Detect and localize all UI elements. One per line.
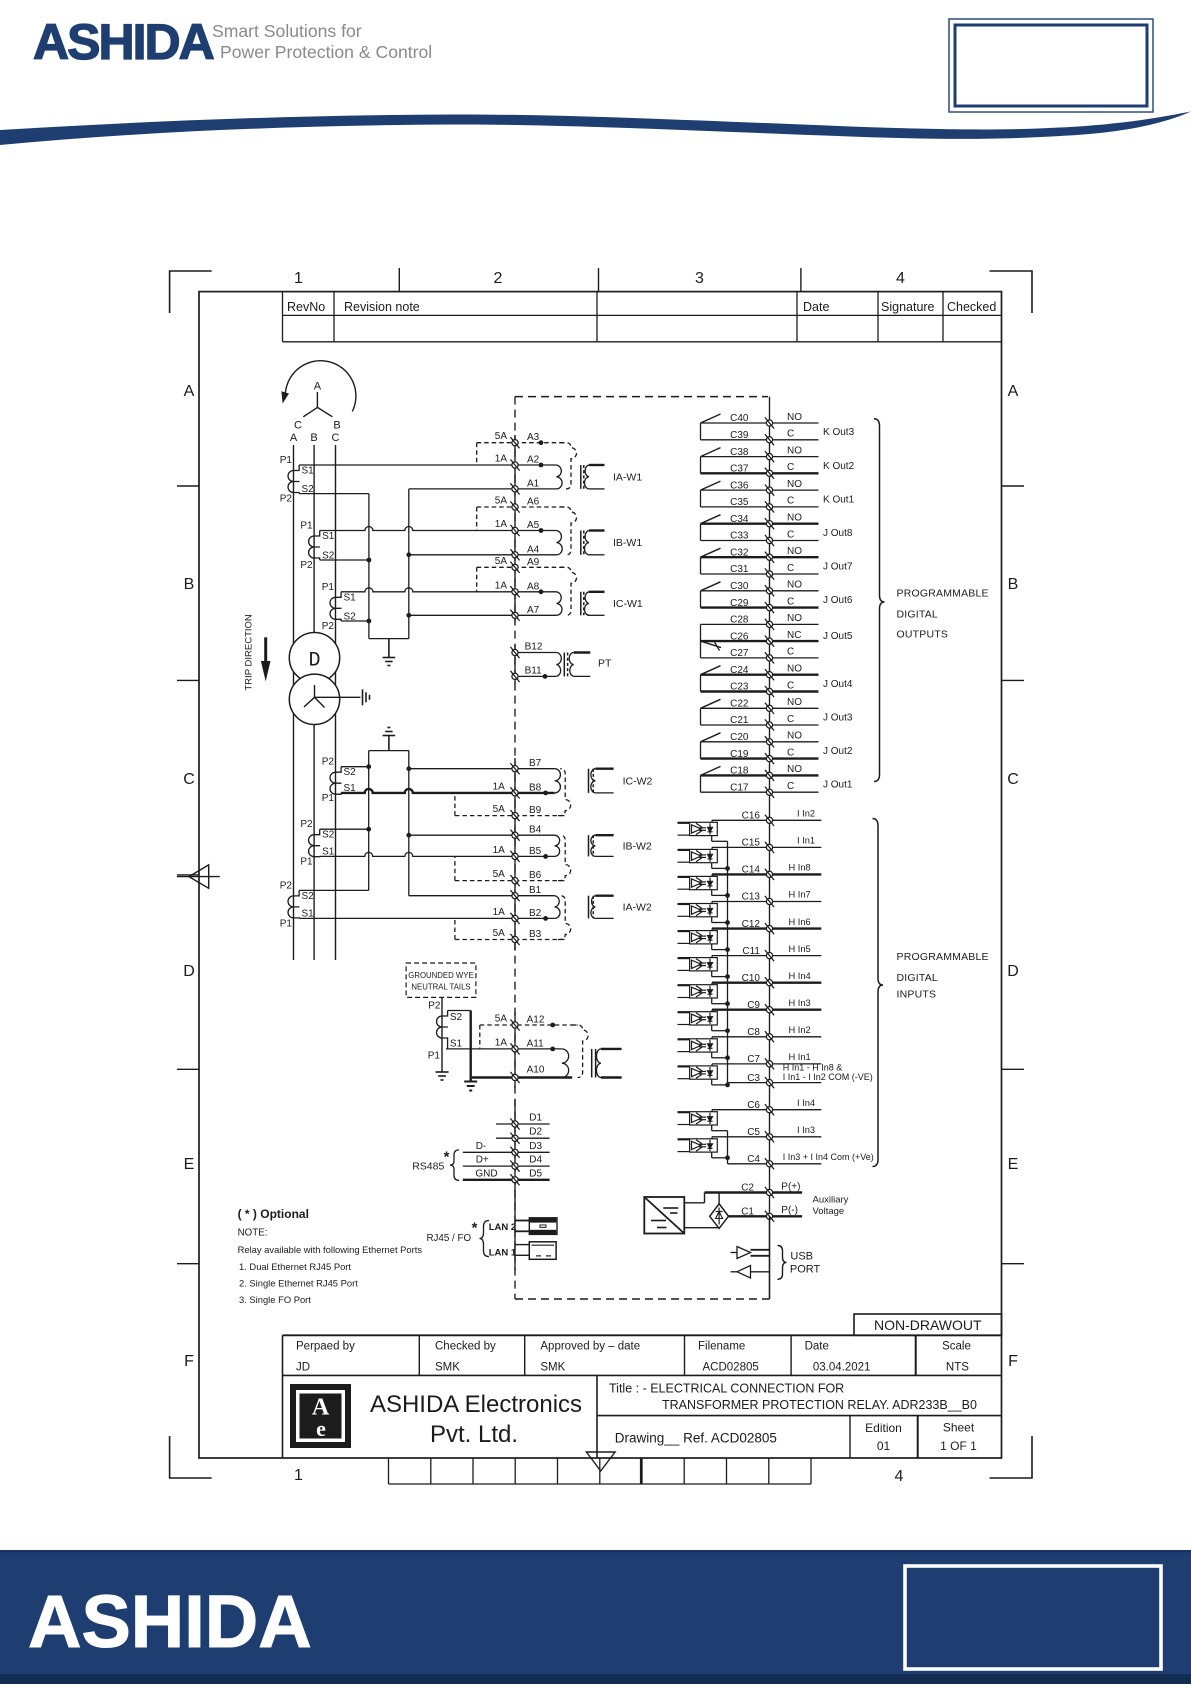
svg-text:J Out4: J Out4 [823,679,853,690]
notes block [238,1207,423,1305]
wire: phase B line [313,445,315,960]
svg-text:Checked by: Checked by [435,1341,496,1353]
winding IA-W2 with 5A wrap and core [543,896,652,940]
svg-text:D3: D3 [529,1141,542,1152]
svg-text:J Out7: J Out7 [823,561,853,572]
svg-text:H In3: H In3 [789,998,811,1008]
CT IA-W1 primary on phase A (P1,S1,S2,P2) [280,455,314,505]
svg-text:C: C [787,747,794,758]
svg-text:B7: B7 [529,758,542,769]
winding IC-W2 with 5A wrap and core [543,769,652,816]
svg-text:B12: B12 [525,642,543,653]
CT IB-W2 primary on phase B (P2,S2,S1,P1) [300,819,334,867]
svg-text:I In4: I In4 [797,1098,815,1108]
relay contact J Out1 (NO pair C18/C17) [701,766,853,792]
svg-text:C: C [294,420,302,432]
transformer delta winding (D) [289,633,339,683]
svg-text:ACD02805: ACD02805 [703,1362,759,1374]
optocoupler for C11 [678,958,718,971]
terminal C14 (input H In8) [712,863,821,880]
svg-text:( * ) Optional: ( * ) Optional [238,1207,309,1221]
wire: I In3/I In4 common bus to C4 [727,1131,729,1164]
svg-text:4: 4 [895,1468,904,1485]
svg-text:NO: NO [787,445,802,456]
svg-text:JD: JD [296,1362,310,1374]
wire: phase C line [335,445,337,960]
terminal C13 (input H In7) [712,890,821,907]
svg-text:5A: 5A [495,431,508,442]
relay case boundary (dashed) left [514,397,516,1299]
USB transmit buffer [731,1247,770,1259]
svg-text:P1: P1 [322,582,335,593]
svg-text:C21: C21 [730,715,749,726]
terminal C10 (input H In4) [712,971,821,988]
svg-text:NO: NO [787,697,802,708]
svg-text:C5: C5 [747,1127,760,1138]
terminal C23 (C) [701,680,819,697]
wire: C13 to opto and common bus [712,902,728,923]
CT neutral primary (P2,S2,S1,P1) [428,1001,463,1062]
svg-text:SMK: SMK [540,1362,565,1374]
header tagline [212,21,432,62]
svg-text:C4: C4 [747,1154,760,1165]
svg-text:e: e [316,1416,326,1441]
svg-text:*: * [444,1149,450,1166]
terminal C2 (P+) [705,1181,803,1198]
svg-text:C: C [1007,771,1019,788]
svg-text:NC: NC [787,630,801,641]
svg-text:C11: C11 [742,946,760,957]
winding IB-W2 with 5A wrap and core [543,835,652,880]
svg-text:Relay available with following: Relay available with following Ethernet … [238,1244,423,1255]
svg-text:Power Protection & Control: Power Protection & Control [220,42,432,62]
terminal C11 (input H In5) [712,944,821,961]
terminal A10 (return, bold) [471,1065,573,1084]
svg-text:P2: P2 [322,757,335,768]
terminal D5 (RS485) [463,1168,550,1185]
svg-text:1: 1 [294,270,303,287]
optocoupler for C6 [678,1112,718,1125]
svg-text:Voltage: Voltage [813,1206,845,1217]
wire: IB-W2 S1 to B5 (crossovers) [320,852,555,856]
wire: converter to C2 [684,1193,704,1203]
PT winding [543,653,612,679]
svg-text:F: F [1008,1353,1018,1370]
svg-text:ASHIDA Electronics: ASHIDA Electronics [370,1391,582,1418]
wire: CT-B S2 to bus [320,559,369,561]
transformer wye winding [289,650,360,725]
svg-text:A12: A12 [527,1015,545,1026]
scale ruler cells [389,1458,812,1484]
svg-text:A10: A10 [527,1065,545,1076]
svg-text:C33: C33 [730,531,749,542]
svg-text:P1: P1 [300,857,313,868]
terminal A1 (return) [409,478,557,494]
svg-text:C: C [332,432,340,444]
svg-text:IB-W1: IB-W1 [613,537,642,549]
svg-text:GROUNDED WYE: GROUNDED WYE [408,971,473,980]
terminal B8 (1A) [493,781,542,798]
svg-text:A7: A7 [527,605,540,616]
terminal C28 (NO) [701,613,819,630]
svg-text:P(-): P(-) [781,1205,798,1216]
svg-text:RJ45 / FO: RJ45 / FO [426,1233,471,1244]
wire: upper bus bottom rail [369,638,409,640]
relay case boundary (dashed) top [515,396,768,398]
optocoupler for C5 [678,1139,718,1152]
terminal C15 (input I In1) [712,836,821,853]
terminal A11 (1A) [446,1037,562,1054]
header swoosh [0,112,1191,146]
svg-text:A5: A5 [527,520,540,531]
svg-text:5A: 5A [493,869,506,880]
svg-text:P2: P2 [300,819,313,830]
svg-text:J Out2: J Out2 [823,746,853,757]
svg-text:B2: B2 [529,908,542,919]
wire: CT-B S1 to A5 with crossovers [320,527,557,531]
svg-text:NEUTRAL TAILS: NEUTRAL TAILS [411,983,470,992]
svg-text:F: F [184,1353,194,1370]
svg-text:C: C [183,771,195,788]
svg-text:D: D [1007,963,1019,980]
inputs brace [873,819,884,1167]
svg-text:B: B [1008,576,1019,593]
CT IC-W1 primary on phase C (P1,S1,S2,P2) [322,582,356,632]
svg-text:PROGRAMMABLE: PROGRAMMABLE [897,588,989,600]
junction dots lower buses [366,764,411,837]
wire: C6 opto to +Ve bus [712,1110,728,1131]
terminal C22 (NO) [701,697,819,714]
terminal B5 (1A) [493,845,542,862]
svg-text:B: B [333,420,340,432]
relay contact J Out6 (NO pair C30/C29) [701,582,853,608]
terminal D1 (RS485) [496,1113,550,1130]
svg-text:P1: P1 [322,793,335,804]
svg-text:C20: C20 [730,732,749,743]
svg-text:Smart Solutions for: Smart Solutions for [212,21,362,41]
terminal B9 (5A tap) [455,793,565,821]
svg-text:C: C [787,596,794,607]
svg-text:A3: A3 [527,432,540,443]
svg-text:D+: D+ [476,1155,489,1166]
svg-text:C: C [787,429,794,440]
svg-text:ASHIDA: ASHIDA [33,14,214,70]
svg-text:ASHIDA: ASHIDA [28,1580,312,1663]
svg-text:E: E [1008,1156,1019,1173]
svg-text:Revision note: Revision note [344,300,420,314]
svg-text:S2: S2 [344,767,357,778]
svg-text:C26: C26 [730,631,749,642]
svg-text:P1: P1 [300,521,313,532]
svg-text:B11: B11 [525,665,542,676]
svg-text:NO: NO [787,764,802,775]
wire: IA-W2 S2 to lower bus [299,889,369,891]
svg-text:C13: C13 [742,892,761,903]
svg-text:TRANSFORMER PROTECTION RELAY.: TRANSFORMER PROTECTION RELAY. ADR233B__B… [662,1398,977,1412]
relay contact J Out4 (NO pair C24/C23) [701,666,853,692]
optocoupler for C12 [678,931,718,944]
svg-text:C: C [787,563,794,574]
optocoupler for C9 [678,1012,718,1025]
polarity dots A3 A2 A5 A8 [539,440,544,594]
svg-text:C10: C10 [742,973,761,984]
drawing ref / edition / sheet [615,1421,977,1454]
svg-text:P(+): P(+) [781,1181,800,1192]
svg-text:PORT: PORT [790,1263,821,1275]
svg-text:Sheet: Sheet [943,1421,975,1435]
terminal B11 [510,665,556,682]
svg-text:Scale: Scale [942,1341,971,1353]
svg-text:1. Dual Ethernet RJ45 Port: 1. Dual Ethernet RJ45 Port [239,1261,351,1272]
svg-text:C30: C30 [730,581,749,592]
terminal D4 (RS485) [463,1155,550,1172]
svg-text:C38: C38 [730,447,749,458]
svg-text:P1: P1 [428,1051,441,1062]
svg-text:5A: 5A [495,496,508,507]
wire: converter to bridge [684,1227,719,1229]
svg-text:D5: D5 [529,1168,542,1179]
svg-text:A9: A9 [527,557,540,568]
svg-text:5A: 5A [495,1014,508,1025]
svg-text:J Out3: J Out3 [823,712,853,723]
terminal C24 (NO) [701,664,819,681]
terminal B2 (1A) [493,907,542,924]
svg-text:NOTE:: NOTE: [238,1228,268,1239]
wire: C14 to opto and common bus [712,874,728,895]
ASHIDA AE logo mark [290,1384,351,1448]
svg-text:C6: C6 [747,1100,760,1111]
svg-text:C: C [787,529,794,540]
svg-text:I In3 + I In4 Com (+Ve): I In3 + I In4 Com (+Ve) [783,1152,874,1162]
svg-text:C2: C2 [741,1183,754,1194]
footer navy band [0,1550,1191,1684]
relay contact J Out3 (NO pair C22/C21) [701,699,853,725]
svg-text:C: C [787,781,794,792]
svg-text:IC-W1: IC-W1 [613,598,643,610]
svg-text:LAN 1: LAN 1 [489,1248,517,1259]
svg-text:A2: A2 [527,455,540,466]
terminal C38 (NO) [701,445,819,462]
svg-text:K Out2: K Out2 [823,461,855,472]
svg-text:NO: NO [787,546,802,557]
frame centering arrow (left) [177,865,220,888]
terminal A4 (return) [409,544,557,560]
LAN2 connector stubs [515,1221,529,1232]
svg-text:Filename: Filename [698,1341,745,1353]
wire: bridge top to C2 line [718,1193,720,1204]
terminal A7 (return) [409,605,557,621]
power supply converter U1 [644,1197,684,1234]
svg-text:B5: B5 [529,846,542,857]
svg-text:B9: B9 [529,805,542,816]
svg-text:NO: NO [787,580,802,591]
svg-text:H In2: H In2 [789,1025,811,1035]
caption Auxiliary Voltage [813,1194,849,1217]
svg-text:5A: 5A [495,556,508,567]
CT IA-W2 primary on phase A (P2,S2,S1,P1) [280,880,314,929]
terminal C1 (P-) [729,1205,803,1222]
svg-text:S2: S2 [322,830,335,841]
optocoupler for C16 [678,822,718,835]
svg-text:1 OF 1: 1 OF 1 [940,1439,977,1453]
terminal C29 (C) [701,596,819,613]
svg-text:C23: C23 [730,682,749,693]
svg-text:LAN 2: LAN 2 [489,1222,516,1233]
terminal C12 (input H In6) [712,917,821,934]
svg-text:B: B [184,576,195,593]
relay case boundary left solid segments at terminal strips [514,435,516,622]
terminal C36 (NO) [701,479,819,496]
terminal D3 (RS485) [463,1141,550,1158]
wire: lower S2 bus (left) [368,751,370,891]
LAN2 connector (RJ45) [529,1218,557,1235]
USB receive buffer [731,1266,770,1279]
svg-text:NO: NO [787,731,802,742]
svg-text:B3: B3 [529,929,542,940]
svg-text:C16: C16 [742,811,761,822]
svg-text:5A: 5A [493,804,506,815]
title block fields [296,1341,971,1374]
svg-text:D: D [183,963,195,980]
svg-text:C7: C7 [747,1054,760,1065]
LAN1 connector stubs [515,1245,529,1256]
terminal C3 (inputs common -VE) [728,1062,873,1088]
svg-text:TRIP DIRECTION: TRIP DIRECTION [244,614,255,690]
wire: C11 to opto and common bus [712,956,728,977]
frame ruler ticks [177,268,1024,1264]
company name [370,1391,582,1448]
svg-text:A6: A6 [527,497,540,508]
svg-text:B: B [310,432,317,444]
svg-text:P1: P1 [280,919,293,930]
svg-text:1A: 1A [495,519,508,530]
svg-text:D4: D4 [529,1155,542,1166]
svg-text:3. Single FO Port: 3. Single FO Port [239,1294,311,1305]
svg-text:C12: C12 [742,919,761,930]
wire: C7 to opto and common bus [712,1064,728,1085]
svg-text:C: C [787,714,794,725]
svg-text:1A: 1A [495,580,508,591]
relay contact J Out7 (NO pair C32/C31) [701,548,853,574]
svg-text:RS485: RS485 [412,1161,444,1173]
terminal D2 (RS485) [496,1127,550,1144]
relay contact J Out8 (NO pair C34/C33) [701,515,853,541]
trip direction label and arrow [244,614,271,690]
svg-text:C: C [787,647,794,658]
terminal C30 (NO) [701,580,819,597]
winding IC-W1 with 5A wrap and core [556,567,643,615]
terminal C34 (NO) [701,513,819,530]
svg-text:C1: C1 [741,1207,754,1218]
svg-text:C18: C18 [730,766,749,777]
caption PROGRAMMABLE DIGITAL INPUTS [897,951,989,1001]
svg-text:IA-W2: IA-W2 [623,902,652,914]
optocoupler for C13 [678,904,718,917]
terminal B3 (5A tap) [455,918,565,945]
svg-text:PT: PT [598,658,612,670]
sheet border frame [199,292,1002,1458]
ground (neutral CT S2) [464,1082,477,1091]
optocoupler for C15 [678,849,718,862]
terminal B12 [510,642,556,659]
svg-text:C: C [787,462,794,473]
svg-text:A: A [1008,383,1019,400]
svg-text:H In1: H In1 [789,1052,811,1062]
svg-text:NTS: NTS [946,1362,969,1374]
wire: phase A line [293,445,295,960]
winding IB-W1 with 5A wrap and core [556,507,642,555]
svg-text:A: A [290,432,298,444]
svg-text:INPUTS: INPUTS [897,989,937,1001]
relay case boundary (dashed) bottom [515,1298,770,1300]
svg-text:J Out1: J Out1 [823,780,853,791]
terminal B4 (return) [409,825,555,841]
svg-text:A1: A1 [527,478,540,489]
svg-text:K Out3: K Out3 [823,427,855,438]
svg-text:C: C [787,496,794,507]
svg-text:P2: P2 [280,880,293,891]
svg-text:I In3: I In3 [797,1125,815,1135]
optocoupler for C14 [678,876,718,889]
svg-text:C35: C35 [730,497,749,508]
terminal A6 (5A tap) [477,496,566,531]
relay contact J Out5 (changeover C28/C26/C27) [701,624,853,658]
svg-text:H In7: H In7 [789,890,811,900]
optocoupler for C10 [678,985,718,998]
svg-text:01: 01 [877,1439,891,1453]
svg-text:1A: 1A [495,454,508,465]
svg-text:B4: B4 [529,825,542,836]
terminal C4 (I In3+I In4 Com +Ve) [728,1152,874,1169]
LAN1 connector (RJ45) [529,1242,556,1260]
relay contact K Out1 (NO pair C36/C35) [701,481,855,507]
svg-text:A8: A8 [527,581,540,592]
winding neutral CT with 5A wrap and core [562,1025,622,1078]
grounded wye neutral tails label box [406,963,476,997]
svg-text:C37: C37 [730,464,749,475]
relay contact J Out2 (NO pair C20/C19) [701,733,853,759]
wire: neutral CT S2 to ground (bold) [448,1010,471,1012]
svg-text:C32: C32 [730,547,749,558]
wire: C15 to opto and common bus [712,847,728,868]
svg-text:NO: NO [787,613,802,624]
ground (transformer neutral) [363,689,370,705]
svg-text:C31: C31 [730,564,749,575]
wire: lower return bus (right) B7/B4/B1 [408,751,410,896]
svg-text:J Out8: J Out8 [823,528,853,539]
svg-text:B8: B8 [529,782,542,793]
drawing title [609,1382,977,1413]
RS485 brace and label [412,1149,459,1181]
revision table [283,292,1002,342]
terminal A9 (5A tap) [477,556,566,592]
svg-text:C3: C3 [747,1073,760,1084]
svg-text:Pvt. Ltd.: Pvt. Ltd. [430,1421,518,1448]
svg-text:USB: USB [790,1250,813,1262]
svg-text:IC-W2: IC-W2 [623,775,653,787]
svg-text:P2: P2 [280,494,293,505]
terminal B6 (5A tap) [455,856,565,886]
terminal C17 (C) [701,781,819,798]
svg-text:PROGRAMMABLE: PROGRAMMABLE [897,951,989,963]
svg-text:1: 1 [294,1467,303,1484]
outputs brace [874,419,885,782]
svg-text:H In1 - H In8 &: H In1 - H In8 & [783,1062,843,1072]
terminal C26 (NC) [701,630,819,647]
wire: C12 to opto and common bus [712,929,728,950]
optocoupler for C8 [678,1039,718,1052]
svg-text:S1: S1 [302,466,315,477]
